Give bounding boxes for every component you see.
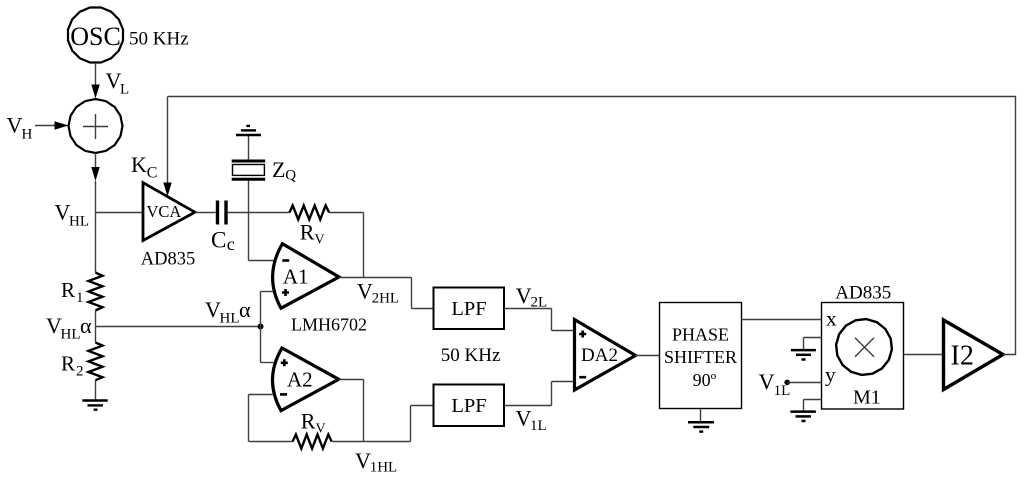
svg-text:V: V <box>516 283 532 308</box>
svg-text:α: α <box>239 297 251 322</box>
wire M1 out to I2 <box>904 354 944 356</box>
svg-text:y: y <box>825 363 836 387</box>
svg-text:R: R <box>61 352 75 376</box>
phase shifter box <box>660 303 742 409</box>
multiplier cross <box>855 338 874 357</box>
ground at M1 x2 <box>804 337 822 339</box>
wire VH arrow into summer <box>35 125 56 127</box>
wire A2 minus loop <box>249 394 274 396</box>
svg-text:V: V <box>315 233 325 248</box>
svg-text:C: C <box>147 165 158 182</box>
svg-text:c: c <box>227 234 235 254</box>
resistor R2 <box>89 343 103 381</box>
svg-text:I2: I2 <box>951 341 974 372</box>
wire phase shifter out to M1 x <box>742 319 822 321</box>
svg-text:1: 1 <box>76 290 84 306</box>
svg-text:HL: HL <box>220 311 240 327</box>
svg-text:OSC: OSC <box>70 22 121 51</box>
LPF box (top) <box>434 288 505 330</box>
wire V1L to M1 y <box>787 382 821 384</box>
wire DA2 out <box>636 355 660 357</box>
ground below R2 <box>95 380 97 400</box>
svg-text:HL: HL <box>61 327 81 343</box>
resistor Rv (bottom) <box>293 435 332 449</box>
wire LPF2 to DA2- <box>504 405 552 407</box>
svg-text:VCA: VCA <box>147 202 182 221</box>
wire Rv2 to LPF2 <box>332 441 411 443</box>
svg-text:R: R <box>301 409 316 434</box>
svg-text:LPF: LPF <box>451 298 486 320</box>
svg-text:1HL: 1HL <box>370 460 398 476</box>
svg-text:x: x <box>826 307 837 331</box>
wire node to A1 minus <box>249 260 274 262</box>
feedback wire I2 to VCA <box>168 97 1016 355</box>
node dot <box>258 324 264 330</box>
svg-text:V: V <box>7 113 23 138</box>
resistor Rv (top) <box>289 206 329 220</box>
multiplier circle <box>836 319 892 375</box>
resistor R1 <box>89 273 103 311</box>
wire A2 out <box>339 379 364 381</box>
svg-text:LPF: LPF <box>451 395 486 417</box>
svg-text:50 KHz: 50 KHz <box>441 345 501 366</box>
svg-text:L: L <box>120 82 129 98</box>
svg-text:R: R <box>300 220 315 245</box>
svg-text:1L: 1L <box>774 383 791 399</box>
svg-text:1L: 1L <box>530 418 547 434</box>
svg-text:PHASE: PHASE <box>672 325 729 345</box>
summing junction <box>69 99 123 153</box>
svg-text:90º: 90º <box>693 370 717 390</box>
wire VHL to VCA <box>96 212 144 214</box>
wire Rv to feedback vertical <box>329 212 363 214</box>
svg-text:2: 2 <box>76 364 84 380</box>
svg-text:HL: HL <box>69 214 89 230</box>
svg-text:AD835: AD835 <box>141 250 195 270</box>
svg-text:SHIFTER: SHIFTER <box>664 347 737 367</box>
svg-text:V: V <box>355 448 371 473</box>
svg-text:C: C <box>211 228 226 253</box>
svg-text:A2: A2 <box>287 368 313 392</box>
arrowhead into summer <box>91 85 99 99</box>
wire VCA out to Cc <box>195 212 216 214</box>
svg-text:Z: Z <box>272 157 285 182</box>
svg-text:α: α <box>80 313 92 338</box>
svg-text:AD835: AD835 <box>835 282 891 303</box>
svg-text:H: H <box>22 127 33 143</box>
wire OSC to summer <box>95 63 97 86</box>
wire A1 out <box>339 277 412 279</box>
svg-text:50 KHz: 50 KHz <box>129 29 189 50</box>
svg-text:V: V <box>357 278 373 303</box>
wire summer down with arrow <box>95 153 97 168</box>
op-amp A1 <box>273 244 339 309</box>
LPF box (bottom) <box>434 385 505 427</box>
svg-text:A1: A1 <box>283 265 309 289</box>
wire VHLa node <box>96 326 261 328</box>
amplifier I2 <box>944 320 1004 390</box>
svg-text:Q: Q <box>285 168 296 184</box>
wire Cc to Rv <box>228 212 290 214</box>
svg-text:V: V <box>759 369 775 394</box>
svg-text:DA2: DA2 <box>581 345 618 366</box>
crystal ZQ <box>232 160 266 163</box>
wire crystal stem down to node and to A1 minus <box>248 180 250 260</box>
svg-text:V: V <box>316 421 326 436</box>
ground at M1 y2 <box>804 399 822 401</box>
ground above ZQ (inverted) <box>248 136 250 160</box>
svg-text:M1: M1 <box>853 387 881 409</box>
wire R1 to R2 <box>95 310 97 342</box>
wires node to A1+/A2+ <box>260 292 262 363</box>
svg-text:2HL: 2HL <box>372 291 400 307</box>
VCA amplifier AD835 <box>143 183 195 241</box>
feedback arrow into VCA <box>167 97 169 184</box>
multiplier M1 box <box>822 303 904 410</box>
svg-text:K: K <box>131 152 147 177</box>
wire LPF1 to DA2+ <box>504 308 552 310</box>
svg-text:R: R <box>61 278 75 302</box>
op-amp DA2 <box>575 320 636 391</box>
capacitor Cc <box>216 201 219 225</box>
svg-text:LMH6702: LMH6702 <box>291 315 367 335</box>
oscillator OSC <box>68 8 123 63</box>
op-amp A2 <box>272 348 338 411</box>
ground below phase shifter <box>700 409 702 423</box>
